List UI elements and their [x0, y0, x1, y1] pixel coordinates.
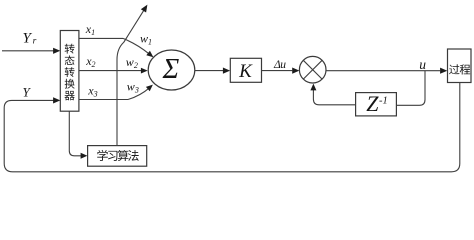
- svg-text:u: u: [419, 57, 426, 72]
- wire u output line to process: [326, 70, 440, 72]
- wire Yr input arrow: [2, 50, 54, 52]
- wire branch down to Z-1 input: [396, 71, 425, 106]
- wire x3 from converter: [79, 99, 128, 101]
- svg-text:Σ: Σ: [162, 54, 180, 85]
- wire Z-1 output up into multiplier: [313, 90, 355, 105]
- wire x2 from converter: [79, 70, 142, 72]
- wire x1 from converter: [79, 37, 123, 39]
- block delay Z^-1: [356, 93, 397, 116]
- wire summer to gain K: [195, 70, 223, 72]
- svg-text:K: K: [238, 61, 253, 82]
- block process 过程: [448, 49, 472, 83]
- wire weight w3 curve into summer: [128, 87, 150, 99]
- wire weight w2 arrow into summer: [141, 68, 148, 74]
- wire converter bottom to learning algorithm: [69, 111, 81, 156]
- wire weight w1 curve into summer: [123, 38, 150, 54]
- block learning algorithm 学习算法: [88, 146, 147, 167]
- summer U1 (sigma neuron): [148, 50, 195, 90]
- svg-text:Δu: Δu: [273, 59, 286, 71]
- multiplier / integrator node (circle with X): [299, 56, 326, 83]
- block state converter 转态转换器: [60, 31, 79, 112]
- wire feedback from process bottom around to Y input: [4, 83, 460, 172]
- wire learning algorithm up through weights (adjust arrow): [117, 8, 145, 145]
- block gain K: [230, 58, 261, 82]
- wire K to multiplier, labelled delta-u: [262, 70, 293, 72]
